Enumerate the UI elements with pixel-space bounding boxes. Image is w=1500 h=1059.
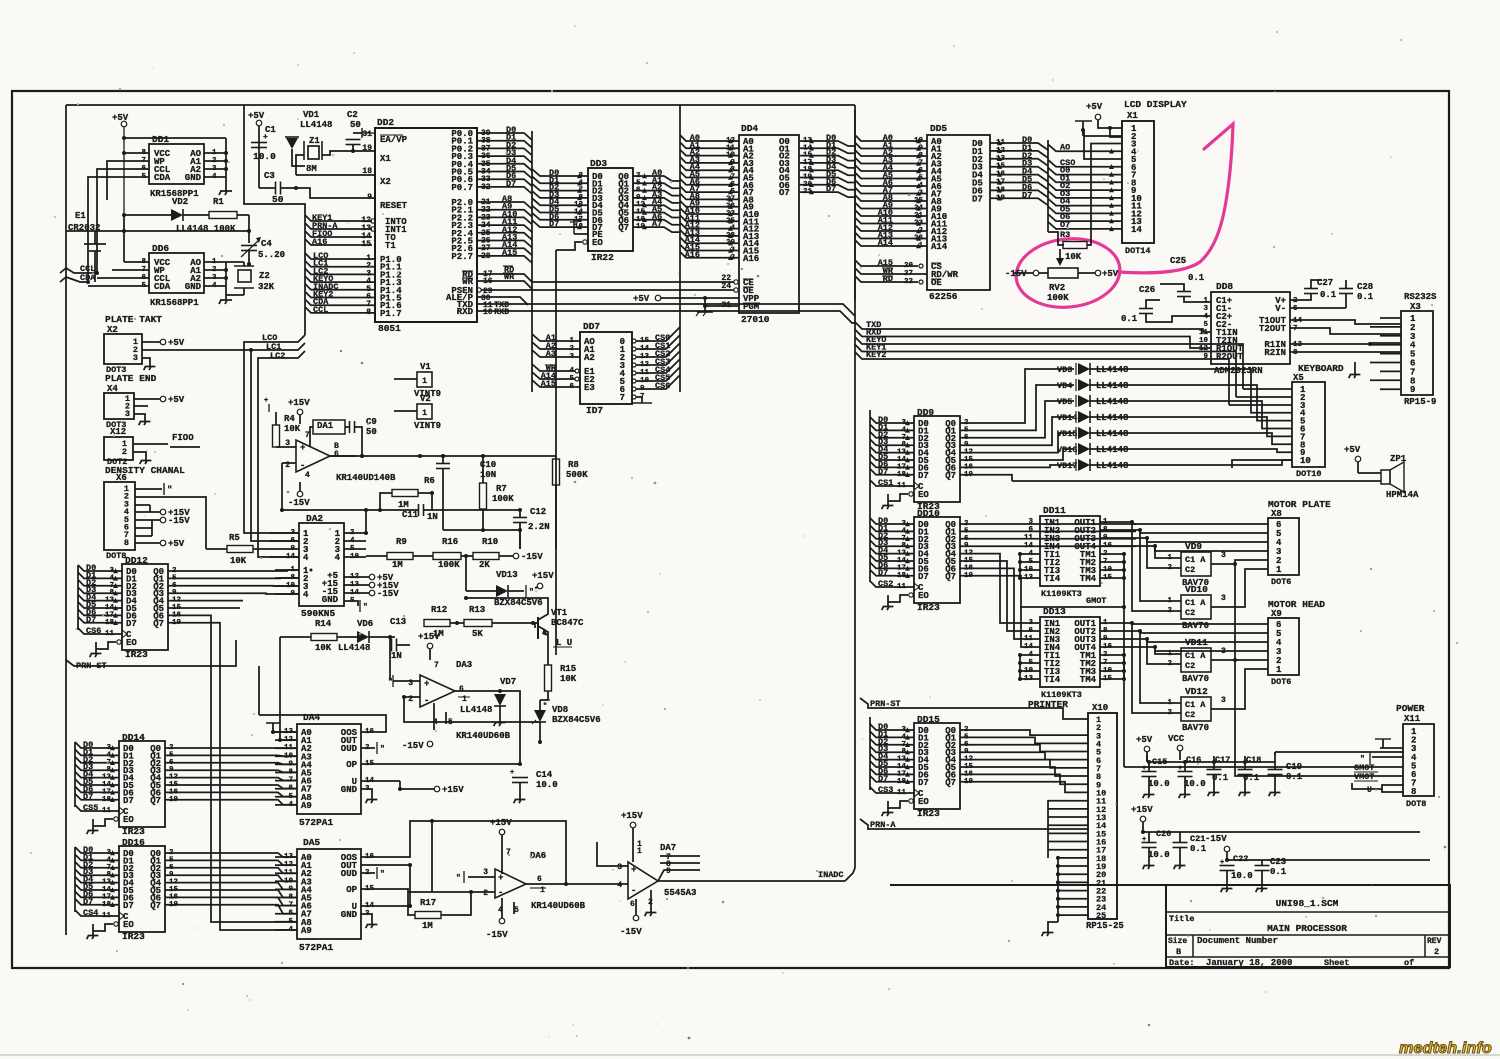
- svg-text:24: 24: [721, 282, 731, 291]
- svg-text:4: 4: [1203, 313, 1208, 321]
- opamp U KR140UD140B: [296, 440, 330, 472]
- svg-text:R15: R15: [560, 664, 576, 674]
- svg-text:T2OUT: T2OUT: [1259, 324, 1287, 334]
- svg-text:R8: R8: [568, 460, 579, 470]
- svg-text:TM4: TM4: [1080, 574, 1097, 584]
- svg-text:0.1: 0.1: [1286, 772, 1303, 782]
- power +15V opamp1: [297, 409, 303, 415]
- svg-text:DA4: DA4: [303, 712, 320, 723]
- svg-text:572PA1: 572PA1: [299, 942, 334, 953]
- svg-text:IR23: IR23: [122, 826, 145, 837]
- DD16 output wires to DA5: [165, 853, 297, 857]
- crystal Z2 32K: [243, 262, 245, 266]
- svg-text:VCC: VCC: [1168, 734, 1185, 744]
- svg-text:GND: GND: [341, 785, 358, 795]
- wires VD9 VD10 inputs: [1155, 547, 1165, 558]
- svg-text:A14: A14: [931, 242, 948, 252]
- svg-text:+15V: +15V: [490, 818, 512, 828]
- svg-text:VD6: VD6: [357, 619, 373, 629]
- svg-text:GND: GND: [341, 910, 358, 920]
- power +15V DA6: [499, 829, 505, 835]
- svg-text:OUD: OUD: [341, 869, 358, 879]
- svg-text:P1.7: P1.7: [380, 309, 402, 319]
- svg-text:C2: C2: [347, 110, 358, 120]
- DA2 output feedback wire: [365, 510, 367, 533]
- output node rail: [330, 455, 556, 457]
- svg-text:Q7: Q7: [150, 901, 161, 911]
- svg-text:-15V: -15V: [1005, 269, 1027, 279]
- svg-text:+5V: +5V: [1136, 735, 1153, 745]
- svg-text:C18: C18: [1246, 755, 1261, 765]
- svg-text:10K: 10K: [1065, 252, 1082, 262]
- svg-text:R2IN: R2IN: [1264, 348, 1286, 358]
- right long vertical wire: [854, 105, 856, 868]
- svg-text:1: 1: [1276, 665, 1282, 675]
- wire X11 pin8: [1382, 789, 1403, 792]
- svg-text:9: 9: [367, 193, 372, 202]
- svg-text:10K: 10K: [284, 424, 301, 434]
- svg-text:KEYBOARD: KEYBOARD: [1298, 363, 1344, 374]
- svg-text:GMOT: GMOT: [1086, 596, 1106, 606]
- svg-text:14: 14: [1024, 542, 1034, 550]
- svg-text:14: 14: [1131, 225, 1142, 235]
- svg-text:E3: E3: [584, 383, 595, 393]
- svg-text:31: 31: [362, 130, 372, 139]
- svg-text:+: +: [510, 769, 514, 777]
- svg-text:Size: Size: [1168, 937, 1187, 946]
- svg-text:2K: 2K: [479, 560, 490, 570]
- svg-text:UNI98_1.SCM: UNI98_1.SCM: [1276, 898, 1339, 909]
- svg-text:3: 3: [1221, 594, 1226, 603]
- wires VD11 VD12 outputs to X9: [1233, 659, 1268, 661]
- svg-text:+: +: [424, 679, 429, 689]
- GMOT long wire: [1124, 766, 1403, 768]
- svg-text:X12: X12: [110, 427, 126, 437]
- svg-text:OUD: OUD: [341, 744, 358, 754]
- svg-text:PRINTER: PRINTER: [1028, 699, 1068, 710]
- svg-text:Q7: Q7: [150, 796, 161, 806]
- wires VD11 VD12 inputs: [1155, 650, 1165, 654]
- DA2 power terminals: [369, 574, 375, 580]
- svg-text:DD7: DD7: [583, 321, 600, 332]
- svg-text:+: +: [1142, 765, 1146, 773]
- svg-text:-15V: -15V: [402, 741, 424, 751]
- DD9 output wires to diode ladder: [960, 369, 1074, 423]
- ground near X3: [1354, 362, 1356, 370]
- svg-text:HPM14A: HPM14A: [1386, 490, 1419, 500]
- +15V term mid: [434, 786, 440, 792]
- svg-text:10.0: 10.0: [536, 780, 558, 790]
- svg-text:18: 18: [574, 223, 584, 231]
- svg-text:0.1: 0.1: [1190, 844, 1207, 854]
- svg-text:": ": [543, 703, 547, 711]
- svg-text:-: -: [300, 461, 305, 471]
- svg-text:D7: D7: [123, 901, 134, 911]
- svg-text:DD8: DD8: [1216, 281, 1233, 292]
- svg-text:EO: EO: [918, 591, 929, 601]
- svg-text:0.1: 0.1: [1243, 773, 1260, 783]
- svg-text:GND: GND: [322, 595, 339, 605]
- svg-text:4: 4: [305, 471, 310, 480]
- svg-text:BZX84C5V6: BZX84C5V6: [494, 598, 543, 608]
- DD3 EO wire: [583, 240, 587, 244]
- svg-text:P0.7: P0.7: [451, 183, 473, 193]
- svg-text:R10: R10: [482, 537, 498, 547]
- title block: [1166, 885, 1450, 967]
- svg-text:V1: V1: [420, 362, 431, 372]
- svg-text:VD4: VD4: [1057, 381, 1072, 391]
- svg-text:3: 3: [1221, 551, 1226, 560]
- svg-text:50: 50: [366, 427, 377, 437]
- svg-text:-15V: -15V: [1205, 834, 1227, 844]
- svg-text:+: +: [264, 397, 268, 405]
- svg-text:": ": [380, 870, 385, 879]
- svg-text:LL4148: LL4148: [1096, 397, 1128, 407]
- power rail connections caps: [1147, 761, 1275, 763]
- svg-text:C16: C16: [1186, 755, 1201, 765]
- svg-text:U: U: [1367, 786, 1372, 795]
- svg-text:0.1: 0.1: [1212, 773, 1229, 783]
- svg-text:X1: X1: [1127, 111, 1138, 121]
- svg-text:DA1: DA1: [317, 421, 334, 431]
- svg-text:-15V: -15V: [620, 927, 642, 937]
- svg-text:Q7: Q7: [945, 572, 956, 582]
- svg-text:V-: V-: [1275, 304, 1286, 314]
- svg-text:DA5: DA5: [303, 837, 320, 848]
- svg-text:+: +: [1220, 859, 1224, 867]
- svg-text:RXD: RXD: [457, 307, 474, 317]
- R14 long vertical wire: [279, 637, 281, 732]
- svg-text:DA6: DA6: [530, 851, 546, 861]
- svg-text:32K: 32K: [258, 282, 275, 292]
- svg-text:DOT14: DOT14: [1125, 246, 1151, 256]
- svg-text:100K: 100K: [1047, 293, 1069, 303]
- svg-text:X10: X10: [1092, 703, 1108, 713]
- svg-text:VD16: VD16: [1057, 445, 1077, 455]
- svg-text:Document Number: Document Number: [1197, 936, 1278, 946]
- svg-text:EO: EO: [592, 238, 603, 248]
- svg-text:Title: Title: [1169, 914, 1195, 924]
- svg-text:11: 11: [1024, 534, 1034, 542]
- svg-text:R12: R12: [431, 605, 447, 615]
- svg-text:VD12: VD12: [1185, 686, 1208, 697]
- svg-text:DD11: DD11: [1043, 505, 1066, 516]
- ground under DD1: [225, 186, 227, 191]
- svg-text:DOT6: DOT6: [1271, 577, 1291, 587]
- decoupling bank +5V VCC: [1144, 746, 1150, 752]
- wire LC2 to DA2: [258, 351, 305, 557]
- wire X5 pin 10: [1232, 460, 1292, 468]
- svg-text:-15V: -15V: [521, 552, 543, 562]
- +15V cap group: [1140, 816, 1146, 822]
- svg-text:C1 A: C1 A: [1185, 598, 1206, 608]
- svg-text:BAV70: BAV70: [1182, 621, 1209, 631]
- svg-text:K1109KT3: K1109KT3: [1041, 589, 1082, 599]
- svg-text:+5V: +5V: [1344, 445, 1361, 455]
- svg-text:": ": [456, 874, 461, 883]
- svg-text:1: 1: [422, 408, 427, 418]
- svg-text:VD1: VD1: [303, 110, 320, 120]
- DA6 output wire: [526, 883, 628, 885]
- DD15 outputs to X10: [960, 730, 1088, 735]
- svg-text:3: 3: [483, 868, 488, 877]
- cap symbol X11 pin4: [1369, 753, 1371, 765]
- svg-text:X11: X11: [1404, 714, 1421, 724]
- svg-text:-15V: -15V: [377, 589, 399, 599]
- svg-text:C12: C12: [530, 507, 546, 517]
- svg-text:4: 4: [617, 881, 622, 890]
- DA5 side wires: [361, 821, 432, 857]
- capacitor C14 10.0: [512, 777, 528, 779]
- DD12 Q6 long vertical to DA5 A8: [168, 615, 297, 922]
- svg-text:CDA: CDA: [154, 173, 171, 183]
- svg-text:2: 2: [1293, 297, 1298, 305]
- svg-text:R1: R1: [213, 197, 224, 207]
- svg-text:C11: C11: [402, 510, 419, 520]
- potentiometer RV2 100K: [1059, 249, 1061, 258]
- trimmer capacitor C4 5..20: [248, 215, 250, 243]
- svg-text:10.0: 10.0: [1148, 779, 1170, 789]
- svg-text:EO: EO: [126, 638, 137, 648]
- WR wire into bus: [477, 281, 532, 289]
- svg-text:DD5: DD5: [930, 123, 947, 134]
- svg-text:OP: OP: [346, 885, 357, 895]
- svg-text:7: 7: [434, 661, 439, 670]
- svg-text:590KN5: 590KN5: [301, 608, 336, 619]
- svg-text:CDA: CDA: [154, 282, 171, 292]
- TXD RXD wires to right bus: [477, 303, 506, 305]
- svg-text:-: -: [498, 888, 503, 898]
- svg-text:C28: C28: [1357, 282, 1373, 292]
- svg-text:IR23: IR23: [122, 931, 145, 942]
- svg-text:9: 9: [1410, 385, 1415, 395]
- svg-text:RP15-9: RP15-9: [1404, 397, 1436, 407]
- svg-text:14: 14: [1293, 317, 1303, 325]
- opamp1 feedback wires: [282, 463, 380, 510]
- svg-text:FIOO: FIOO: [172, 433, 194, 443]
- svg-text:1: 1: [540, 886, 545, 895]
- svg-text:R14: R14: [315, 619, 332, 629]
- svg-text:EO: EO: [918, 490, 929, 500]
- DD12 output wires to DA2: [168, 570, 299, 571]
- svg-text:13: 13: [1293, 341, 1303, 349]
- svg-text:8051: 8051: [378, 323, 401, 334]
- svg-text:+5V: +5V: [168, 539, 185, 549]
- svg-text:3: 3: [125, 409, 130, 419]
- svg-text:2.2N: 2.2N: [528, 522, 550, 532]
- svg-text:1: 1: [1276, 565, 1282, 575]
- svg-text:0.1: 0.1: [1320, 290, 1337, 300]
- svg-text:D7: D7: [918, 572, 929, 582]
- svg-text:+: +: [498, 873, 503, 883]
- svg-text:C3: C3: [264, 171, 275, 181]
- svg-text:IR23: IR23: [917, 602, 940, 613]
- svg-text:8: 8: [1293, 349, 1298, 357]
- wire reset: [296, 188, 375, 198]
- svg-text:D7: D7: [549, 219, 559, 229]
- connector X11 DOT8: [1403, 724, 1434, 796]
- svg-text:LL4148: LL4148: [1096, 445, 1128, 455]
- svg-text:6: 6: [334, 450, 339, 459]
- svg-text:R9: R9: [396, 537, 407, 547]
- svg-text:+5V: +5V: [168, 338, 185, 348]
- svg-text:27010: 27010: [741, 314, 770, 325]
- svg-text:7: 7: [1293, 325, 1298, 333]
- DD9 Q7 wire: [960, 475, 1012, 481]
- svg-text:A2: A2: [584, 353, 595, 363]
- svg-text:+: +: [263, 133, 268, 142]
- svg-text:1M: 1M: [422, 921, 433, 931]
- svg-text:R3: R3: [1060, 230, 1070, 240]
- svg-text:3: 3: [1203, 305, 1208, 313]
- svg-text:-: -: [631, 886, 636, 896]
- svg-text:IR23: IR23: [125, 649, 148, 660]
- svg-text:19: 19: [362, 144, 372, 153]
- svg-text:6: 6: [1293, 305, 1298, 313]
- svg-text:RXD: RXD: [494, 307, 509, 317]
- svg-text:VD13: VD13: [496, 570, 518, 580]
- wire LCO to DA2: [244, 335, 305, 533]
- svg-text:EO: EO: [123, 920, 134, 930]
- svg-text:1N: 1N: [391, 651, 402, 661]
- svg-text:2: 2: [1434, 947, 1439, 957]
- svg-text:1: 1: [462, 695, 467, 704]
- LCD bus vertical line: [1047, 140, 1049, 232]
- svg-text:IR23: IR23: [917, 808, 940, 819]
- svg-text:6: 6: [459, 685, 464, 694]
- svg-text:EO: EO: [123, 815, 134, 825]
- svg-text:1M: 1M: [398, 500, 409, 510]
- svg-text:January 18, 2000: January 18, 2000: [1206, 958, 1292, 968]
- svg-text:+: +: [1178, 765, 1182, 773]
- svg-text:Q7: Q7: [618, 223, 629, 233]
- svg-text:C25: C25: [1170, 256, 1186, 266]
- svg-text:5545A3: 5545A3: [664, 888, 696, 898]
- svg-text:LL4148: LL4148: [1096, 413, 1128, 423]
- svg-text:C1 A: C1 A: [1185, 700, 1206, 710]
- wire to C14 OP rail: [500, 691, 520, 764]
- pin 31 stub: [362, 132, 375, 134]
- DD13 TI tie wires: [1020, 654, 1040, 656]
- +5V to VPP: [655, 295, 661, 301]
- svg-text:C1 A: C1 A: [1185, 555, 1206, 565]
- svg-text:+15V: +15V: [532, 571, 554, 581]
- power +5V LCD: [1095, 114, 1101, 120]
- svg-text:8: 8: [124, 538, 129, 548]
- wires VD9 VD10 outputs to X8: [1233, 560, 1268, 564]
- svg-text:Q7: Q7: [945, 778, 956, 788]
- svg-text:PLATE TAKT: PLATE TAKT: [105, 314, 162, 325]
- svg-text:-15V: -15V: [486, 930, 508, 940]
- svg-text:+5V: +5V: [633, 294, 650, 304]
- svg-text:0.1: 0.1: [1121, 314, 1138, 324]
- svg-text:C20: C20: [1156, 829, 1171, 839]
- svg-text:6: 6: [630, 900, 635, 909]
- PSEN wire to DD4 OE: [477, 288, 481, 292]
- svg-text:IR22: IR22: [591, 252, 614, 263]
- svg-text:C13: C13: [390, 617, 406, 627]
- svg-text:+: +: [631, 865, 636, 875]
- svg-text:A9: A9: [301, 926, 312, 936]
- svg-text:-: -: [424, 696, 429, 706]
- svg-text:7: 7: [620, 393, 625, 403]
- svg-text:CCL: CCL: [313, 305, 328, 315]
- svg-text:-15V: -15V: [288, 498, 310, 508]
- capacitor C11 1N: [418, 504, 420, 516]
- svg-text:V2: V2: [420, 394, 431, 404]
- DD9 DD10 input bus: [869, 410, 871, 582]
- svg-text:ADM202JRN: ADM202JRN: [1214, 366, 1263, 376]
- power +15V DA7: [630, 822, 636, 828]
- svg-text:0.1: 0.1: [1357, 292, 1374, 302]
- svg-text:medteh.info: medteh.info: [1399, 1040, 1492, 1057]
- svg-text:B: B: [1176, 947, 1181, 957]
- svg-text:": ": [380, 745, 385, 754]
- svg-text:C2: C2: [1185, 710, 1195, 720]
- svg-text:DOT8: DOT8: [106, 551, 126, 561]
- svg-text:LL4148: LL4148: [1096, 429, 1128, 439]
- svg-text:DOT6: DOT6: [1271, 677, 1291, 687]
- svg-text:11: 11: [1024, 635, 1034, 643]
- wires X5 pins 1 2 3: [1243, 388, 1292, 390]
- svg-text:D7: D7: [123, 796, 134, 806]
- wire collector up: [466, 598, 548, 606]
- svg-text:Date:: Date:: [1169, 958, 1195, 968]
- svg-text:D7: D7: [918, 778, 929, 788]
- svg-text:DD4: DD4: [741, 123, 758, 134]
- svg-text:RV2: RV2: [1049, 283, 1065, 293]
- svg-text:6: 6: [537, 875, 542, 884]
- wire LC1 to DA2: [251, 343, 305, 541]
- DD10 outputs to DD11 inputs: [960, 523, 1136, 525]
- capacitor C21 0.1: [1173, 842, 1188, 844]
- pink ellipse around RV2: [1013, 234, 1124, 312]
- svg-text:X1: X1: [380, 154, 391, 164]
- svg-text:C26: C26: [1139, 285, 1155, 295]
- svg-text:Z1: Z1: [309, 136, 320, 146]
- svg-text:3: 3: [133, 353, 138, 363]
- DA4 A0 A1 feed wires: [266, 722, 280, 724]
- svg-text:+: +: [1142, 836, 1146, 844]
- svg-text:LL4148: LL4148: [300, 120, 332, 130]
- power +5V oscillator: [256, 120, 262, 126]
- svg-text:3: 3: [1221, 696, 1226, 705]
- oscillator box wire: [244, 105, 305, 335]
- svg-text:Q7: Q7: [945, 471, 956, 481]
- svg-text:TI4: TI4: [1044, 675, 1061, 685]
- svg-text:1M: 1M: [392, 560, 403, 570]
- svg-text:10K: 10K: [315, 643, 332, 653]
- svg-text:C19: C19: [1286, 762, 1302, 772]
- svg-text:8: 8: [1411, 787, 1416, 797]
- svg-text:KR140UD60B: KR140UD60B: [456, 731, 511, 741]
- svg-text:10K: 10K: [230, 556, 247, 566]
- svg-text:TI4: TI4: [1044, 574, 1061, 584]
- svg-text:VD17: VD17: [1057, 461, 1077, 471]
- svg-text:LL4148 100K: LL4148 100K: [176, 224, 236, 234]
- svg-text:VD5: VD5: [1057, 397, 1072, 407]
- svg-text:LL4148: LL4148: [1096, 365, 1128, 375]
- svg-text:6: 6: [1028, 526, 1033, 534]
- power +15V DA3: [427, 643, 433, 649]
- scan speckles: [953, 45, 954, 46]
- svg-text:14: 14: [1024, 643, 1034, 651]
- power -15V opamp1: [297, 491, 303, 497]
- wire CCL CDA to left edge: [66, 268, 97, 273]
- svg-text:3: 3: [1028, 619, 1033, 627]
- svg-text:VD2: VD2: [172, 197, 188, 207]
- svg-text:R16: R16: [442, 537, 458, 547]
